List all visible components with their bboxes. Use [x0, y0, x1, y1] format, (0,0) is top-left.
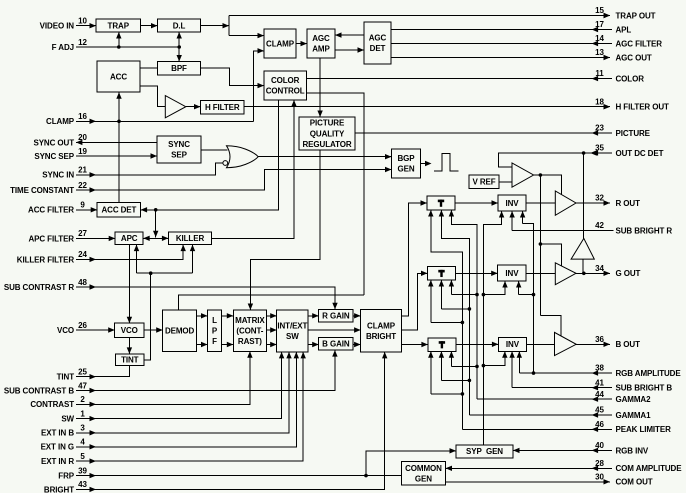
svg-text:INV: INV — [505, 199, 519, 208]
svg-text:AGC: AGC — [369, 34, 387, 43]
svg-text:SYNC OUT: SYNC OUT — [33, 138, 74, 147]
svg-text:BRIGHT: BRIGHT — [366, 332, 396, 341]
svg-text:2: 2 — [80, 395, 85, 404]
svg-text:SUB CONTRAST B: SUB CONTRAST B — [4, 386, 74, 395]
svg-text:SYNC IN: SYNC IN — [42, 171, 74, 180]
svg-text:43: 43 — [78, 480, 87, 489]
svg-text:VCO: VCO — [121, 326, 138, 335]
svg-text:PICTURE: PICTURE — [616, 129, 651, 138]
svg-text:DEMOD: DEMOD — [165, 326, 195, 335]
svg-text:ACC FILTER: ACC FILTER — [28, 206, 74, 215]
svg-text:CONTROL: CONTROL — [266, 87, 305, 96]
svg-text:COM OUT: COM OUT — [616, 478, 653, 487]
svg-text:AMP: AMP — [312, 45, 330, 54]
svg-text:1: 1 — [80, 409, 85, 418]
svg-text:TINT: TINT — [57, 373, 75, 382]
svg-text:22: 22 — [78, 181, 87, 190]
svg-text:27: 27 — [78, 229, 87, 238]
svg-text:SUB BRIGHT B: SUB BRIGHT B — [616, 384, 673, 393]
svg-text:APC FILTER: APC FILTER — [28, 234, 74, 243]
svg-text:48: 48 — [78, 278, 87, 287]
svg-text:VCO: VCO — [57, 326, 74, 335]
svg-text:GEN: GEN — [397, 165, 414, 174]
svg-text:COM AMPLITUDE: COM AMPLITUDE — [616, 464, 683, 473]
svg-text:EXT IN R: EXT IN R — [41, 457, 74, 466]
svg-text:32: 32 — [595, 194, 604, 203]
svg-text:ACC: ACC — [110, 72, 127, 81]
svg-text:36: 36 — [595, 335, 604, 344]
svg-text:13: 13 — [595, 48, 604, 57]
svg-text:B GAIN: B GAIN — [322, 340, 350, 349]
svg-text:21: 21 — [78, 166, 87, 175]
svg-text:18: 18 — [595, 97, 604, 106]
svg-text:D.L: D.L — [173, 21, 186, 30]
svg-text:RGB INV: RGB INV — [616, 446, 649, 455]
svg-text:SEP: SEP — [171, 151, 187, 160]
svg-text:ACC DET: ACC DET — [101, 206, 136, 215]
svg-text:RAST): RAST) — [238, 337, 262, 346]
svg-text:PICTURE: PICTURE — [310, 119, 345, 128]
svg-text:19: 19 — [78, 147, 87, 156]
svg-text:AGC: AGC — [312, 34, 330, 43]
svg-text:G OUT: G OUT — [616, 269, 641, 278]
svg-text:RGB AMPLITUDE: RGB AMPLITUDE — [616, 369, 682, 378]
svg-text:REGULATOR: REGULATOR — [302, 140, 351, 149]
svg-text:COMMON: COMMON — [405, 464, 442, 473]
svg-text:H FILTER: H FILTER — [205, 103, 240, 112]
svg-text:FRP: FRP — [58, 472, 74, 481]
svg-text:R OUT: R OUT — [616, 199, 641, 208]
svg-text:12: 12 — [78, 38, 87, 47]
svg-text:R GAIN: R GAIN — [322, 311, 350, 320]
svg-text:OUT DC DET: OUT DC DET — [616, 149, 664, 158]
svg-text:GEN: GEN — [415, 474, 432, 483]
svg-text:GAMMA1: GAMMA1 — [616, 411, 652, 420]
svg-text:MATRIX: MATRIX — [235, 316, 265, 325]
svg-text:SUB CONTRAST R: SUB CONTRAST R — [4, 283, 74, 292]
svg-text:QUALITY: QUALITY — [310, 129, 345, 138]
svg-text:BRIGHT: BRIGHT — [44, 485, 74, 493]
svg-text:SYNC: SYNC — [168, 140, 190, 149]
svg-text:COLOR: COLOR — [616, 75, 645, 84]
svg-text:4: 4 — [80, 438, 85, 447]
svg-text:H FILTER OUT: H FILTER OUT — [616, 103, 670, 112]
svg-text:5: 5 — [80, 452, 85, 461]
svg-text:SW: SW — [61, 415, 74, 424]
svg-text:F ADJ: F ADJ — [52, 43, 74, 52]
svg-text:APC: APC — [121, 234, 138, 243]
svg-text:P: P — [212, 326, 218, 335]
svg-text:CLAMP: CLAMP — [46, 117, 75, 126]
svg-text:L: L — [212, 316, 217, 325]
svg-text:25: 25 — [78, 368, 87, 377]
svg-text:DET: DET — [370, 44, 386, 53]
svg-text:AGC OUT: AGC OUT — [616, 53, 652, 62]
svg-text:TIME CONSTANT: TIME CONSTANT — [10, 186, 74, 195]
svg-text:VIDEO IN: VIDEO IN — [40, 22, 75, 31]
svg-text:BPF: BPF — [171, 64, 187, 73]
svg-text:INT/EXT: INT/EXT — [277, 321, 307, 330]
svg-text:24: 24 — [78, 250, 87, 259]
svg-text:(CONT-: (CONT- — [236, 326, 263, 335]
svg-text:34: 34 — [595, 264, 604, 273]
svg-text:TRAP OUT: TRAP OUT — [616, 11, 656, 20]
svg-text:B OUT: B OUT — [616, 340, 641, 349]
svg-text:TRAP: TRAP — [108, 21, 130, 30]
svg-text:16: 16 — [78, 112, 87, 121]
svg-text:3: 3 — [80, 424, 85, 433]
svg-text:SW: SW — [286, 332, 299, 341]
svg-text:47: 47 — [78, 381, 87, 390]
svg-text:SYP GEN: SYP GEN — [466, 447, 503, 456]
svg-text:F: F — [212, 337, 217, 346]
svg-text:BGP: BGP — [397, 154, 415, 163]
svg-text:10: 10 — [78, 17, 87, 26]
svg-text:INV: INV — [505, 269, 519, 278]
svg-text:20: 20 — [78, 133, 87, 142]
svg-text:CONTRAST: CONTRAST — [30, 400, 74, 409]
svg-text:EXT IN B: EXT IN B — [41, 429, 74, 438]
svg-text:KILLER: KILLER — [176, 234, 205, 243]
svg-text:9: 9 — [80, 201, 85, 210]
svg-text:42: 42 — [595, 221, 604, 230]
svg-text:15: 15 — [595, 6, 604, 15]
svg-text:30: 30 — [595, 472, 604, 481]
svg-text:CLAMP: CLAMP — [367, 321, 396, 330]
svg-text:COLOR: COLOR — [271, 76, 300, 85]
svg-text:V REF: V REF — [472, 178, 495, 187]
svg-text:SUB BRIGHT R: SUB BRIGHT R — [616, 226, 673, 235]
svg-text:CLAMP: CLAMP — [266, 39, 295, 48]
svg-text:SYNC SEP: SYNC SEP — [34, 152, 74, 161]
svg-text:26: 26 — [78, 321, 87, 330]
svg-text:KILLER FILTER: KILLER FILTER — [17, 255, 75, 264]
svg-text:APL: APL — [616, 25, 632, 34]
svg-text:39: 39 — [78, 466, 87, 475]
svg-text:AGC FILTER: AGC FILTER — [616, 39, 663, 48]
svg-text:GAMMA2: GAMMA2 — [616, 395, 652, 404]
svg-text:TINT: TINT — [121, 356, 139, 365]
svg-text:EXT IN G: EXT IN G — [41, 443, 74, 452]
svg-text:INV: INV — [506, 340, 520, 349]
svg-text:PEAK LIMITER: PEAK LIMITER — [616, 425, 672, 434]
